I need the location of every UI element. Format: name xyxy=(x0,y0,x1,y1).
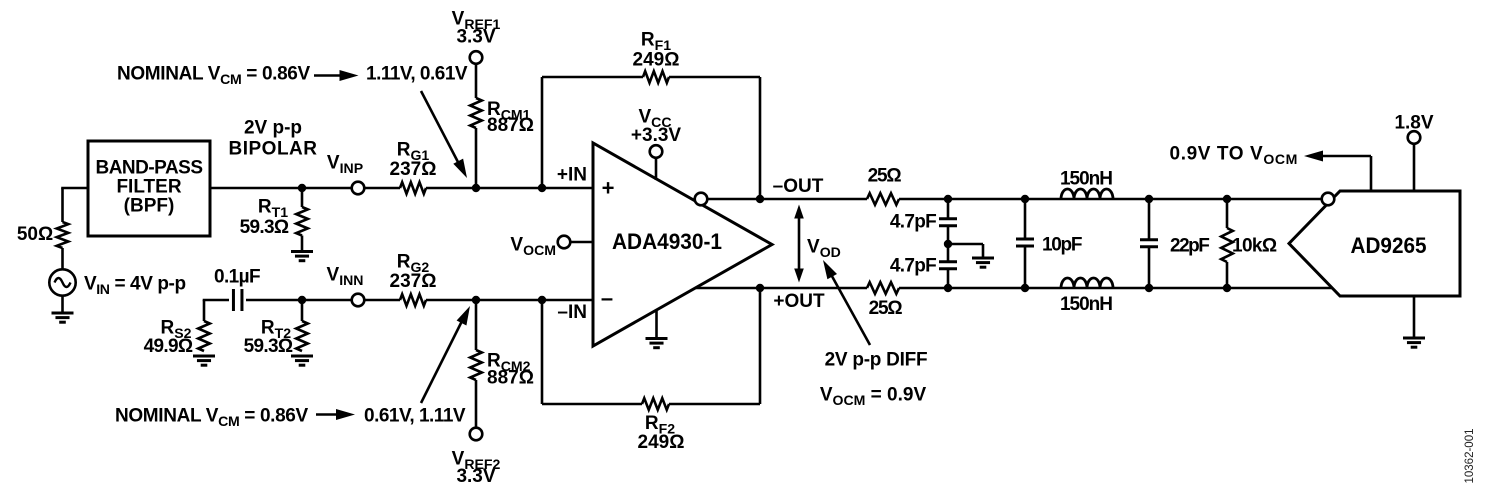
svg-text:NOMINAL VCM = 0.86V: NOMINAL VCM = 0.86V xyxy=(117,64,311,88)
svg-text:–: – xyxy=(601,286,613,311)
svg-text:249Ω: 249Ω xyxy=(633,50,680,71)
svg-text:BAND-PASS: BAND-PASS xyxy=(95,158,202,179)
svg-text:10362-001: 10362-001 xyxy=(1464,429,1476,484)
svg-text:887Ω: 887Ω xyxy=(487,368,534,389)
svg-text:–IN: –IN xyxy=(557,302,587,323)
svg-text:1.8V: 1.8V xyxy=(1394,113,1433,134)
svg-text:249Ω: 249Ω xyxy=(638,432,685,453)
svg-text:AD9265: AD9265 xyxy=(1351,233,1427,258)
svg-text:+OUT: +OUT xyxy=(773,291,825,312)
svg-text:59.3Ω: 59.3Ω xyxy=(240,217,289,238)
svg-text:ADA4930-1: ADA4930-1 xyxy=(612,229,722,254)
svg-text:FILTER: FILTER xyxy=(116,177,181,198)
svg-text:25Ω: 25Ω xyxy=(868,166,902,187)
svg-text:3.3V: 3.3V xyxy=(456,466,495,487)
svg-text:0.61V, 1.11V: 0.61V, 1.11V xyxy=(364,406,466,427)
svg-text:+: + xyxy=(602,176,615,201)
svg-text:49.9Ω: 49.9Ω xyxy=(144,336,193,357)
svg-text:237Ω: 237Ω xyxy=(390,271,437,292)
svg-text:(BPF): (BPF) xyxy=(124,196,175,217)
svg-text:–OUT: –OUT xyxy=(773,176,824,197)
svg-text:150nH: 150nH xyxy=(1060,294,1112,315)
svg-text:50Ω: 50Ω xyxy=(17,224,53,245)
svg-text:2V p-p: 2V p-p xyxy=(244,118,302,139)
svg-text:10kΩ: 10kΩ xyxy=(1232,236,1277,257)
svg-text:NOMINAL VCM = 0.86V: NOMINAL VCM = 0.86V xyxy=(115,406,309,430)
svg-text:237Ω: 237Ω xyxy=(390,159,437,180)
svg-text:+3.3V: +3.3V xyxy=(631,125,682,146)
svg-text:4.7pF: 4.7pF xyxy=(890,256,936,277)
svg-text:887Ω: 887Ω xyxy=(487,115,534,136)
svg-text:3.3V: 3.3V xyxy=(456,27,495,48)
svg-text:1.11V, 0.61V: 1.11V, 0.61V xyxy=(366,64,468,85)
svg-text:2V p-p DIFF: 2V p-p DIFF xyxy=(825,350,928,371)
svg-text:10pF: 10pF xyxy=(1042,235,1082,256)
svg-text:59.3Ω: 59.3Ω xyxy=(244,336,293,357)
svg-text:150nH: 150nH xyxy=(1060,169,1112,190)
svg-text:BIPOLAR: BIPOLAR xyxy=(229,139,318,160)
svg-text:25Ω: 25Ω xyxy=(869,298,903,319)
svg-text:0.1µF: 0.1µF xyxy=(214,267,260,288)
svg-text:+IN: +IN xyxy=(557,165,587,186)
svg-text:22pF: 22pF xyxy=(1170,236,1209,257)
svg-text:4.7pF: 4.7pF xyxy=(890,212,936,233)
